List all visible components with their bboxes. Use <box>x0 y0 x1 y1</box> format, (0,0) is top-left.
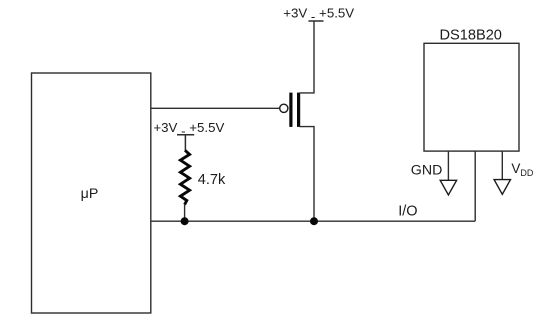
gate bar <box>289 93 292 127</box>
junction dot (resistor / IO line) <box>181 217 189 225</box>
power symbol (resistor supply T-bar) <box>177 135 194 151</box>
wire GND lead <box>447 151 449 180</box>
resistor R1 4.7k zigzag <box>180 150 189 204</box>
svg-text:μP: μP <box>81 186 99 202</box>
microprocessor U1 box <box>32 73 151 313</box>
svg-text:I/O: I/O <box>398 204 417 220</box>
channel bar <box>297 93 300 127</box>
wire I/O horizontal <box>151 220 475 222</box>
DS18B20 box <box>424 43 519 151</box>
ground arrow VDD <box>494 180 510 195</box>
gate bubble <box>280 104 288 112</box>
ground arrow GND <box>440 180 456 195</box>
svg-text:4.7k: 4.7k <box>198 172 226 188</box>
svg-text:DS18B20: DS18B20 <box>439 28 501 44</box>
power symbol (MOSFET supply T-bar) <box>308 20 323 22</box>
wire drain lead (bottom) <box>300 127 315 222</box>
wire resistor bottom <box>184 204 186 221</box>
svg-text:GND: GND <box>411 162 443 178</box>
wire VDD lead <box>501 151 503 180</box>
wire source lead (top) <box>300 21 315 93</box>
wire DQ lead (DS18B20 to IO line) <box>474 151 476 221</box>
wire gate (uP to MOSFET) <box>151 107 280 109</box>
junction dot (MOSFET drain / IO line) <box>310 217 318 225</box>
